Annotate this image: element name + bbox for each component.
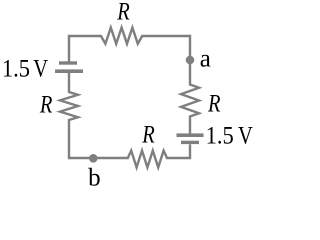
svg-text:V: V xyxy=(238,121,253,148)
svg-text:R: R xyxy=(207,89,220,116)
svg-text:V: V xyxy=(33,55,48,82)
svg-text:R: R xyxy=(141,121,154,148)
svg-text:b: b xyxy=(88,165,101,188)
svg-text:R: R xyxy=(39,91,52,118)
svg-text:1.5: 1.5 xyxy=(2,55,30,82)
svg-text:R: R xyxy=(116,0,129,25)
svg-text:1.5: 1.5 xyxy=(206,122,234,149)
svg-text:a: a xyxy=(200,45,211,72)
